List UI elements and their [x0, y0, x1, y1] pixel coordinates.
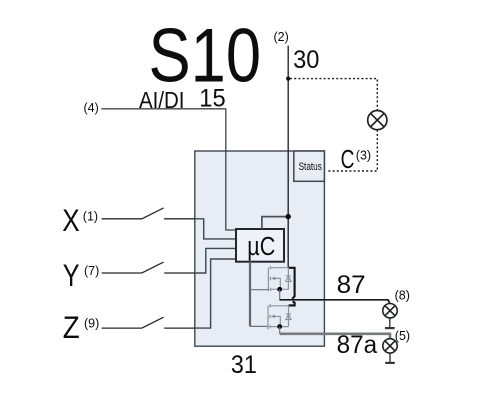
svg-text:X: X — [62, 202, 79, 238]
node: source junction Q1 — [277, 287, 282, 292]
wire dashed status lamp branch — [290, 79, 377, 171]
wire rail to MOSFET drains (thick, with crossover hop) — [288, 268, 294, 306]
svg-text:(1): (1) — [83, 210, 98, 224]
wire gate drive from microcontroller — [249, 262, 251, 327]
svg-text:87: 87 — [337, 271, 366, 299]
ground for lamp L3 — [389, 353, 391, 363]
svg-text:87a: 87a — [337, 331, 378, 359]
switch S2 (input Y) — [102, 262, 196, 273]
wire AI/DI input (4) to microcontroller — [101, 109, 237, 230]
node: junction rail 30 / microcontroller — [286, 214, 291, 219]
svg-text:C: C — [341, 144, 355, 174]
node: junction on rail 30 for status lamp — [286, 77, 290, 81]
transistor Q2 arrow — [270, 315, 275, 319]
svg-text:(4): (4) — [84, 101, 99, 115]
svg-text:Z: Z — [63, 309, 80, 345]
svg-text:(7): (7) — [84, 264, 99, 278]
op-amp U2 microcontroller box — [236, 229, 284, 262]
wire supply rail 30 — [287, 46, 289, 268]
switch S1 (input X) — [102, 208, 196, 219]
wire input Z to microcontroller — [195, 259, 237, 328]
svg-text:(8): (8) — [395, 288, 410, 302]
diode D2 body diode of Q2 — [286, 314, 291, 320]
device box U1 (relay module body) — [195, 151, 325, 346]
ground for lamp L2 — [389, 318, 391, 328]
svg-text:(5): (5) — [395, 329, 410, 343]
svg-text:30: 30 — [293, 46, 319, 74]
wire output 87a to lamp (thick grey) — [280, 334, 390, 339]
wire Q2 source down to output 87a — [279, 327, 281, 334]
svg-text:(2): (2) — [274, 30, 289, 44]
transistor Q2 (high-side MOSFET, output 87a) — [268, 304, 289, 329]
svg-text:Status: Status — [299, 161, 323, 173]
wire input X to microcontroller — [195, 219, 237, 239]
lamp L1 status indicator — [368, 111, 387, 130]
wire gate stub Q2 — [250, 325, 268, 327]
wire gate stub Q1 — [250, 289, 268, 291]
wire microcontroller supply to rail junction — [262, 217, 288, 229]
svg-text:(3): (3) — [356, 149, 371, 163]
transistor Q1 (high-side MOSFET, output 87) — [268, 266, 288, 291]
wire input Y to microcontroller — [195, 248, 237, 273]
transistor Q1 arrow — [271, 277, 276, 281]
lamp L2 on output 87 — [383, 304, 397, 318]
lamp L3 on output 87a — [383, 339, 397, 353]
switch S3 (input Z) — [102, 317, 196, 328]
wire Q1 source down to output 87 — [279, 289, 281, 300]
diode D1 body diode of Q1 — [286, 276, 291, 282]
status indicator box — [294, 151, 325, 181]
node: source junction Q2 — [277, 324, 282, 329]
wire output 87 to lamp — [280, 300, 390, 304]
svg-text:µC: µC — [247, 233, 275, 261]
svg-text:Y: Y — [63, 257, 80, 293]
svg-text:31: 31 — [231, 351, 257, 379]
svg-text:(9): (9) — [84, 316, 99, 330]
